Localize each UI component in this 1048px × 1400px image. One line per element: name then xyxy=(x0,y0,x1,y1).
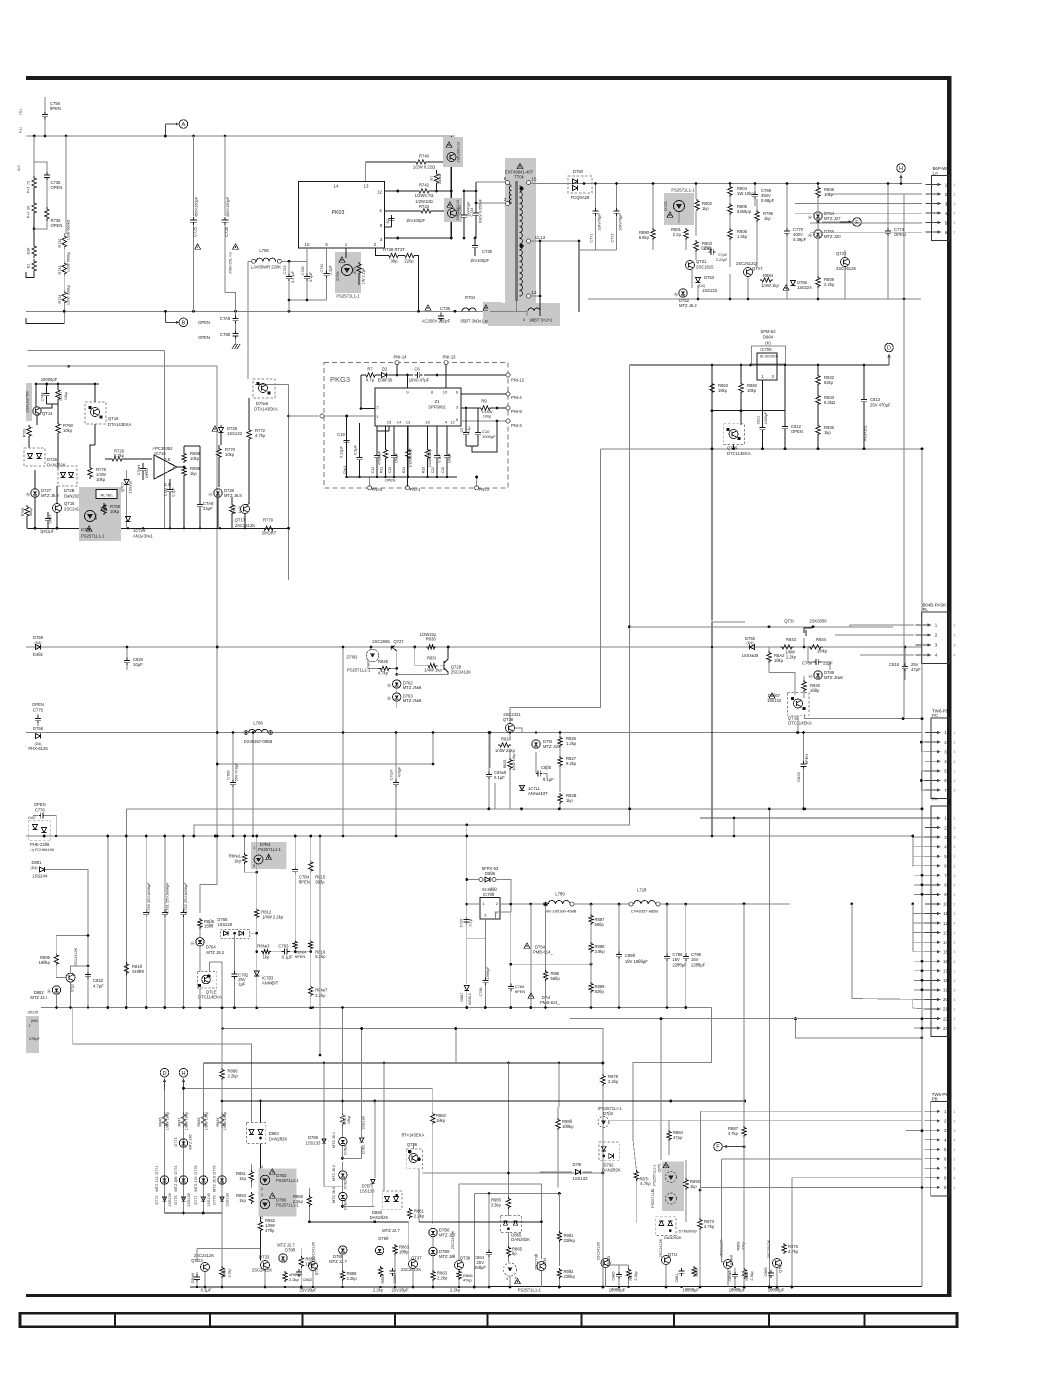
resistor R887 560p xyxy=(589,914,593,925)
svg-text:2SC2655: 2SC2655 xyxy=(372,639,390,644)
svg-text:4.7kρ: 4.7kρ xyxy=(255,433,266,438)
svg-text:C88θ: C88θ xyxy=(625,953,636,958)
wire PA pin21 hook xyxy=(913,999,925,1010)
wire PK03 pin12 xyxy=(384,190,417,192)
svg-text:2: 2 xyxy=(954,826,956,830)
wire vertical x=216.5 branch to R805 xyxy=(214,835,217,838)
svg-text:L706: L706 xyxy=(259,248,269,253)
connector TW6-P9P pin 9 xyxy=(925,1186,941,1188)
svg-text:1θθθθμF: 1θθθθμF xyxy=(768,1288,785,1293)
PKG3 dashed border xyxy=(324,362,508,487)
wire PA pins 16-19 stubs xyxy=(914,960,925,962)
svg-text:D7B2: D7B2 xyxy=(344,1145,348,1155)
resistor R7J1 P+J xyxy=(32,176,36,190)
svg-text:R843: R843 xyxy=(786,637,797,642)
svg-text:OPEN: OPEN xyxy=(198,335,210,340)
svg-text:C7ρ5: C7ρ5 xyxy=(718,253,727,257)
diode D799 DAN202K dashed xyxy=(656,1217,676,1236)
svg-text:C2Ⅱ: C2Ⅱ xyxy=(441,467,445,474)
capacitor C786 16V 2200uF xyxy=(666,904,668,954)
connector B6P-WH pin 2 xyxy=(926,193,942,195)
svg-text:ANⅡ4βⅠT: ANⅡ4βⅠT xyxy=(262,980,279,985)
svg-text:1W 10kρ: 1W 10kρ xyxy=(737,191,754,196)
svg-text:PNI-4: PNI-4 xyxy=(511,395,522,400)
svg-text:1: 1 xyxy=(954,624,956,628)
resistor R836 1k xyxy=(817,406,819,424)
svg-text:CT89: CT89 xyxy=(227,770,231,779)
svg-text:1/16W2.2kρ: 1/16W2.2kρ xyxy=(409,448,413,467)
wire PKG3 top rail y=375 xyxy=(361,374,364,376)
svg-text:PNI-3: PNI-3 xyxy=(511,423,522,428)
wire PB pin3 stub xyxy=(906,1130,922,1132)
svg-text:R11: R11 xyxy=(380,467,384,473)
svg-text:№3: №3 xyxy=(17,165,21,171)
svg-text:2SC2412K: 2SC2412K xyxy=(312,1241,316,1260)
svg-text:1SS№3Ⅱ: 1SS№3Ⅱ xyxy=(742,653,759,658)
connector TW6-P9P pin 2 xyxy=(925,1120,941,1122)
zener D779 MTZ J5.6 xyxy=(218,1176,226,1184)
svg-text:0.1μF: 0.1μF xyxy=(309,271,313,281)
svg-text:3: 3 xyxy=(954,789,956,793)
capacitor C798 1000pF xyxy=(484,939,486,978)
resistor R860 2.3k xyxy=(220,1266,224,1278)
connector PA pin 12 xyxy=(925,922,941,924)
svg-text:2.2kρ: 2.2kρ xyxy=(437,1276,448,1281)
svg-text:C776: C776 xyxy=(35,808,46,813)
wire feedback rail y=350.5 xyxy=(28,350,165,352)
wire C6 to pin9 xyxy=(407,375,409,388)
resistor R828 1k xyxy=(558,793,562,804)
zener D727 HTZ J6.8 xyxy=(31,489,39,497)
svg-text:8.2kΩ: 8.2kΩ xyxy=(824,400,835,405)
svg-text:1.5kρ: 1.5kρ xyxy=(737,234,748,239)
wire bus y=1101 xyxy=(222,1100,745,1102)
svg-text:D8θ5: D8θ5 xyxy=(485,871,496,876)
resistor R802 1k xyxy=(695,199,699,211)
svg-text:D79θ: D79θ xyxy=(378,1236,389,1241)
svg-text:↑η FCHθA1θ6: ↑η FCHθA1θ6 xyxy=(30,848,54,852)
zener D752 HTZ J6.2 xyxy=(679,289,687,297)
svg-text:R732: R732 xyxy=(58,238,62,247)
svg-text:2: 2 xyxy=(954,941,956,945)
svg-text:#10×16L: #10×16L xyxy=(863,424,868,440)
svg-text:PL: PL xyxy=(923,607,929,612)
resistor R806 1.5k xyxy=(728,228,732,240)
diode D860 DAN202K xyxy=(382,1191,402,1210)
resistor R763 1k xyxy=(27,425,31,438)
capacitor C785 OPEN xyxy=(510,912,512,984)
svg-text:1/8W 1θθρ: 1/8W 1θθρ xyxy=(204,1111,208,1130)
svg-text:2: 2 xyxy=(261,1187,263,1191)
svg-text:MTZ J27: MTZ J27 xyxy=(824,216,841,221)
svg-text:R846: R846 xyxy=(158,1117,162,1126)
svg-text:10μF: 10μF xyxy=(133,662,143,667)
svg-text:OPEN: OPEN xyxy=(198,320,210,325)
svg-text:DAN2θ2K: DAN2θ2K xyxy=(269,1137,288,1142)
wire standby B+ bus y=647 xyxy=(26,646,921,648)
title block divider 9 xyxy=(864,1313,866,1326)
svg-text:1θθθρF: 1θθθρF xyxy=(486,966,490,980)
resistor R757 10k xyxy=(57,384,59,388)
svg-text:1/2W 680kΩ: 1/2W 680kΩ xyxy=(66,219,70,240)
svg-text:PS2571L1-1: PS2571L1-1 xyxy=(347,668,371,673)
svg-text:QT38: QT38 xyxy=(460,1256,471,1261)
resistor RT3T 220ohm xyxy=(403,253,416,257)
svg-text:220ρ: 220ρ xyxy=(404,259,414,264)
svg-text:4: 4 xyxy=(954,922,956,926)
capacitor C8H6 0.1uF xyxy=(196,1272,198,1275)
connector TW6-P9P pin 7 xyxy=(925,789,941,791)
transistor Q7B2 2SC2412K xyxy=(66,973,75,982)
terminal PNI-2 xyxy=(475,486,479,490)
photocoupler D7G1 PS2571L1-1 bottom xyxy=(504,1263,517,1276)
svg-text:PK03: PK03 xyxy=(332,210,345,216)
svg-text:L708: L708 xyxy=(253,721,263,726)
svg-text:⇑: ⇑ xyxy=(28,1024,31,1028)
svg-text:MTZ J№8: MTZ J№8 xyxy=(403,685,422,690)
wire PA pin22 pin23 stubs xyxy=(914,1018,925,1020)
resistor R893 1k xyxy=(684,1178,688,1190)
svg-text:Ⓝ: Ⓝ xyxy=(209,491,213,497)
svg-text:PS2571L1-1: PS2571L1-1 xyxy=(81,534,105,539)
wire QT16 connections xyxy=(94,384,96,402)
resistor R779 SHORT xyxy=(262,526,275,530)
resistor R732 1/2W 680k xyxy=(62,234,66,249)
svg-text:0.22μF: 0.22μF xyxy=(716,258,728,262)
wire B04B pin4 lead xyxy=(880,654,914,656)
resistor R769 10k xyxy=(102,503,106,515)
resistor R826 1.2k xyxy=(558,736,562,747)
svg-text:DAN2θ2K: DAN2θ2K xyxy=(511,1237,530,1242)
wire left verticals to audio bus xyxy=(107,836,109,1008)
svg-text:1/8W 1θθρ: 1/8W 1θθρ xyxy=(185,1111,189,1130)
svg-text:2SA1837TM: 2SA1837TM xyxy=(26,391,30,412)
transformer pin 3 terminal xyxy=(506,202,510,206)
svg-text:E4θ2: E4θ2 xyxy=(33,652,43,657)
svg-text:150μF: 150μF xyxy=(395,452,399,463)
wire pin15 down xyxy=(388,426,390,431)
zener IC709 AN1431T xyxy=(125,516,130,521)
svg-text:MTZ J6.1: MTZ J6.1 xyxy=(332,1132,336,1148)
svg-text:630V 0.056μF: 630V 0.056μF xyxy=(479,198,483,223)
wire IC700 output rail y=904.1 xyxy=(467,903,480,905)
svg-text:PNI-2: PNI-2 xyxy=(479,487,490,492)
diode D791b 1SS133 xyxy=(576,1170,581,1175)
svg-text:SPM-52: SPM-52 xyxy=(760,329,776,334)
svg-text:2.2kρ: 2.2kρ xyxy=(414,1214,425,1219)
capacitor C10 1000uF xyxy=(477,408,479,430)
svg-text:2: 2 xyxy=(954,864,956,868)
svg-text:C7Ш4: C7Ш4 xyxy=(390,770,394,780)
svg-text:1kρ: 1kρ xyxy=(239,1176,246,1181)
wire bottom ground bus y=1287 xyxy=(190,1285,922,1288)
node B circle xyxy=(179,318,188,327)
wire feedback ground bus y=528.3 xyxy=(28,527,289,529)
svg-text:1μF: 1μF xyxy=(238,981,246,986)
capacitor C736 AC250V 220pF xyxy=(425,305,431,310)
wire rail y=1028.5 xyxy=(223,1029,603,1075)
junction dots audio bus xyxy=(55,1006,57,1008)
svg-text:15: 15 xyxy=(532,177,537,182)
svg-text:4.7ρ: 4.7ρ xyxy=(366,378,375,383)
capacitor C773 xyxy=(708,251,711,253)
svg-text:3: 3 xyxy=(954,202,956,206)
svg-text:R740: R740 xyxy=(419,154,430,159)
svg-text:C775: C775 xyxy=(33,708,44,713)
diode D753 1SS133 xyxy=(696,278,701,283)
svg-text:450V150pF: 450V150pF xyxy=(194,196,199,217)
resistor R805 6458ohm xyxy=(728,203,732,215)
svg-text:2SC2612K: 2SC2612K xyxy=(836,266,856,271)
svg-text:R830: R830 xyxy=(426,637,437,642)
zener D764 HTZ J8.2 xyxy=(196,938,204,946)
wire PA pin23 feed xyxy=(796,1019,922,1038)
svg-text:D7Ζ5: D7Ζ5 xyxy=(664,201,668,210)
svg-text:R825: R825 xyxy=(503,760,507,769)
wires QTJ8 cluster xyxy=(509,750,511,758)
svg-text:OPEN: OPEN xyxy=(34,802,46,807)
svg-text:2.3kρ: 2.3kρ xyxy=(634,1270,638,1280)
svg-text:QTZ1: QTZ1 xyxy=(696,259,707,264)
svg-text:1/4W 1θkρ: 1/4W 1θkρ xyxy=(512,753,516,770)
resistor R796 1k xyxy=(755,210,759,222)
svg-text:1SS130: 1SS130 xyxy=(129,481,133,494)
resistor R801 2.2k xyxy=(684,228,688,240)
svg-text:C19: C19 xyxy=(337,432,345,437)
connector B04B-PASK-1 pin 3 xyxy=(916,644,932,646)
svg-text:2.2kρ: 2.2kρ xyxy=(373,1288,384,1293)
svg-text:19: 19 xyxy=(943,988,948,993)
svg-text:QT3Ⅰ: QT3Ⅰ xyxy=(784,619,793,624)
svg-text:CT58: CT58 xyxy=(220,332,231,337)
capacitor CT71 10kV476pF xyxy=(595,184,597,209)
svg-text:D78θ: D78θ xyxy=(285,1248,296,1253)
svg-text:2.2kρ: 2.2kρ xyxy=(450,1288,461,1293)
svg-text:1/4W 22kρ: 1/4W 22kρ xyxy=(495,748,516,753)
svg-text:E2: E2 xyxy=(27,264,31,268)
wire QT36 right link to x=419 xyxy=(418,1221,420,1223)
wire bus D line verticals xyxy=(628,365,630,809)
wire L710 to PA pin10 xyxy=(660,903,790,905)
svg-text:2.2kρ: 2.2kρ xyxy=(289,1277,300,1282)
svg-text:1W 2.2μF: 1W 2.2μF xyxy=(362,267,366,284)
svg-text:2SC2512K: 2SC2512K xyxy=(767,1239,771,1258)
resistor R849 1/8W 100ohm xyxy=(220,1112,224,1128)
svg-text:QT22: QT22 xyxy=(836,251,847,256)
svg-text:PKG3: PKG3 xyxy=(330,375,350,384)
connector B04B-PASK-1 pin 4 xyxy=(916,654,932,656)
svg-text:2SC2412K: 2SC2412K xyxy=(451,670,471,675)
svg-text:1SS13θ: 1SS13θ xyxy=(207,1193,211,1207)
svg-text:1/2W4.7Ω: 1/2W4.7Ω xyxy=(415,193,434,198)
component R13 1/16W2.2kρ xyxy=(407,426,409,448)
wire rail y=1044 to D863 xyxy=(73,1044,252,1123)
svg-text:A: A xyxy=(182,122,186,128)
svg-text:C731: C731 xyxy=(320,263,324,272)
transistor QT14 2SA1837TM xyxy=(26,383,32,421)
svg-text:4: 4 xyxy=(261,1193,263,1197)
svg-text:QT15: QT15 xyxy=(64,501,75,506)
svg-text:C797: C797 xyxy=(460,918,464,927)
svg-text:1θθθθμF: 1θθθθμF xyxy=(609,1288,626,1293)
svg-text:C822: C822 xyxy=(93,978,104,983)
svg-text:OPEN: OPEN xyxy=(791,429,803,434)
svg-text:R857: R857 xyxy=(343,1115,347,1124)
svg-text:C792 25V1θθθμF: C792 25V1θθθμF xyxy=(183,882,188,914)
zener D779A PMB-614L xyxy=(528,993,534,998)
component C2Ⅱ 100μF xyxy=(446,426,448,453)
wire control bus y=365 xyxy=(629,364,889,366)
resistor R865 0p xyxy=(506,1246,510,1257)
svg-text:Dι57: Dι57 xyxy=(28,816,36,820)
svg-text:2.2kρ: 2.2kρ xyxy=(293,1199,304,1204)
capacitor C886 and resistor R872 xyxy=(618,1271,620,1274)
resistor R7J2 P+J xyxy=(32,201,36,215)
wire rail y=1063 xyxy=(203,1062,603,1064)
component C12 47000ρF xyxy=(376,426,378,453)
svg-text:1kρ: 1kρ xyxy=(566,798,573,803)
svg-text:(K): (K) xyxy=(765,341,771,346)
svg-text:1: 1 xyxy=(954,969,956,973)
transformer pin 13 terminal xyxy=(527,294,531,298)
connector TW6-P9P pin 3 xyxy=(925,751,941,753)
svg-text:56θρ: 56θρ xyxy=(551,976,561,981)
connector TW6-P9P pin 8 xyxy=(925,1177,941,1179)
svg-text:D1: D1 xyxy=(386,219,390,224)
junction dot return line xyxy=(921,447,924,450)
capacitor C737 AC250V 220pF xyxy=(483,305,489,310)
svg-text:H: H xyxy=(899,166,903,172)
resistor R903 3.3k xyxy=(506,1197,510,1209)
resistor R899 180k xyxy=(54,953,58,966)
wire opto bottom to neutral bus xyxy=(289,299,327,301)
resistor R832 82k xyxy=(817,365,819,374)
wire C9 C10 join to pin5 rail xyxy=(466,445,478,447)
wire verticals x=744 x=769 from secondary xyxy=(768,809,770,1287)
transformer pin 11,12 terminal xyxy=(527,239,531,243)
svg-text:θPEN: θPEN xyxy=(50,106,61,111)
svg-text:(D4): (D4) xyxy=(35,641,42,645)
resistor R833 8.2k xyxy=(817,386,819,394)
capacitor C734 630V 0.056uF xyxy=(475,182,477,210)
resistor R831 1/4W 1k xyxy=(415,647,427,666)
connector PA box xyxy=(931,806,950,1037)
svg-text:97TL: 97TL xyxy=(353,266,357,274)
shunt IC7LL AN1431T xyxy=(519,785,524,790)
zener D762 HTZ J18 xyxy=(393,680,401,688)
inductor L708 DX40357-085B xyxy=(244,731,248,735)
svg-text:22μF: 22μF xyxy=(203,506,213,511)
svg-text:PNI-12: PNI-12 xyxy=(511,378,525,383)
wire PA pin20 lead xyxy=(851,904,853,999)
svg-text:6458ρρ: 6458ρρ xyxy=(737,209,752,214)
svg-text:R742: R742 xyxy=(419,183,430,188)
svg-text:C885: C885 xyxy=(764,1267,768,1276)
transistor QTZ1 2SC1815 xyxy=(686,261,695,270)
svg-text:3: 3 xyxy=(954,912,956,916)
svg-text:0.68μF: 0.68μF xyxy=(761,198,775,203)
node D circle top xyxy=(885,343,894,352)
svg-text:D863: D863 xyxy=(269,1131,280,1136)
svg-text:1: 1 xyxy=(954,731,956,735)
svg-text:25V1θμF: 25V1θμF xyxy=(391,1288,409,1293)
svg-text:47000ρF: 47000ρF xyxy=(378,450,382,465)
svg-text:D705: D705 xyxy=(336,271,340,280)
svg-text:LA: LA xyxy=(933,170,938,175)
svg-text:D758: D758 xyxy=(33,726,44,731)
svg-text:1kρ: 1kρ xyxy=(234,859,241,864)
svg-text:2.2μF: 2.2μF xyxy=(329,264,333,274)
wire PA pin1 lead drop to B+ bus xyxy=(733,818,735,836)
node B arrow xyxy=(164,311,166,322)
svg-text:PHX-6125: PHX-6125 xyxy=(28,746,48,751)
svg-text:1/8W 1θθρ: 1/8W 1θθρ xyxy=(166,1111,170,1130)
connector B6P-WH LA box xyxy=(932,175,950,240)
svg-text:R83Ⅰ: R83Ⅰ xyxy=(427,656,436,661)
svg-text:50V 47θμF: 50V 47θμF xyxy=(235,762,239,781)
svg-text:2SC1815: 2SC1815 xyxy=(696,265,714,270)
svg-text:1.2kρ: 1.2kρ xyxy=(566,741,577,746)
resistor RT38 39ohm xyxy=(387,253,400,257)
svg-text:D750: D750 xyxy=(573,169,584,174)
connector PA pin 22 xyxy=(925,1018,941,1020)
wire mid horizontal y=410.6 xyxy=(711,394,713,411)
svg-text:100μF: 100μF xyxy=(448,452,452,463)
svg-text:E08F36: E08F36 xyxy=(378,378,393,383)
svg-text:1: 1 xyxy=(954,817,956,821)
resistor R889 820p xyxy=(589,982,593,993)
svg-text:8.2kρ: 8.2kρ xyxy=(315,954,326,959)
terminal PNI-14 xyxy=(395,361,399,365)
svg-text:LAV05WR 220K: LAV05WR 220K xyxy=(251,265,281,270)
capacitor C823 OPEN xyxy=(803,733,805,763)
svg-text:2: 2 xyxy=(954,231,956,235)
wire secondary return bus y=299 xyxy=(588,298,921,300)
svg-text:MTZ Jβ8: MTZ Jβ8 xyxy=(174,1176,178,1191)
svg-text:3: 3 xyxy=(954,950,956,954)
gray pad under C737 xyxy=(483,302,502,324)
svg-text:16V: 16V xyxy=(672,957,680,962)
svg-text:12: 12 xyxy=(943,921,948,926)
svg-text:9.2kρ: 9.2kρ xyxy=(566,761,577,766)
capacitor C864 25V 460uF xyxy=(488,1249,490,1252)
svg-text:22: 22 xyxy=(943,1016,948,1021)
wire pin2 left xyxy=(346,416,348,477)
zeners D7B6 D7B9 xyxy=(429,1228,437,1236)
svg-text:PNI-5: PNI-5 xyxy=(372,487,383,492)
svg-text:D7Bθ: D7Bθ xyxy=(344,1179,348,1189)
svg-text:C735: C735 xyxy=(482,249,493,254)
resistor R846 1/8W 100ohm xyxy=(162,1112,166,1128)
svg-text:PS2571L1-1: PS2571L1-1 xyxy=(336,294,360,299)
svg-text:1kρ: 1kρ xyxy=(190,471,197,476)
svg-text:16V0.47μF: 16V0.47μF xyxy=(409,378,430,383)
svg-text:D72B: D72B xyxy=(64,488,75,493)
junction dots 9V bus xyxy=(245,731,247,733)
resistor R827 9.2k xyxy=(558,756,562,767)
resistor R866b 47k xyxy=(457,1270,461,1280)
terminal PNI-5 xyxy=(368,486,372,490)
wire SI-8050 input vertical xyxy=(466,836,468,984)
wire pin3 via R9 xyxy=(461,407,479,409)
svg-text:56θρ: 56θρ xyxy=(595,922,605,927)
svg-text:MTZ J8.2: MTZ J8.2 xyxy=(206,950,224,955)
svg-text:4: 4 xyxy=(954,998,956,1002)
capacitor C770 400V 0.39uF xyxy=(786,184,788,229)
resistor R871 4.7k xyxy=(634,1170,638,1181)
svg-text:0.1μF: 0.1μF xyxy=(494,775,505,780)
svg-text:D887: D887 xyxy=(460,992,464,1001)
